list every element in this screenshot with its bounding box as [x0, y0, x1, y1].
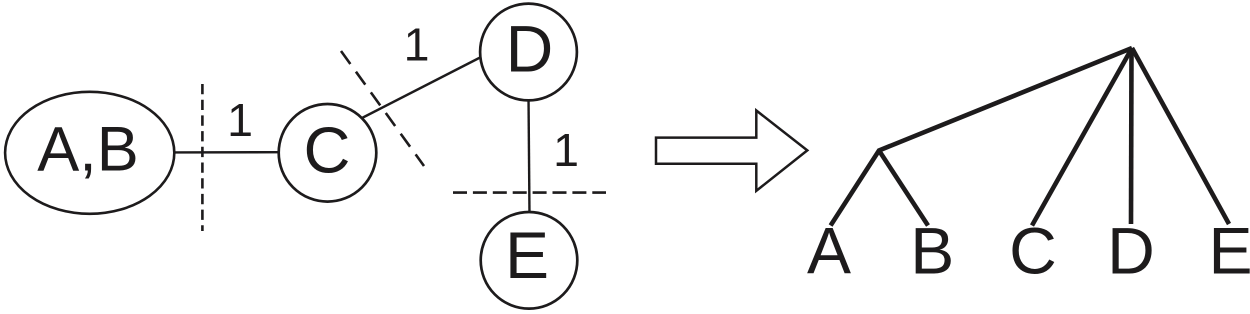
svg-text:1: 1 [227, 94, 253, 146]
tree edge root–D [1129, 48, 1134, 224]
cut line 2 (diagonal dashed) [341, 51, 424, 166]
tree edge root–E [1132, 48, 1229, 224]
wire D to E [529, 96, 530, 215]
arrow (transform symbol) [656, 111, 807, 191]
svg-text:A: A [807, 213, 851, 287]
node C (circle) [279, 104, 377, 202]
svg-text:A,B: A,B [37, 115, 139, 185]
svg-text:B: B [910, 213, 954, 287]
svg-text:E: E [505, 218, 549, 292]
node D (circle) [480, 4, 577, 101]
svg-text:1: 1 [553, 124, 579, 176]
tree edge root–C [1032, 48, 1132, 226]
cut line 1 (vertical dashed) [201, 84, 204, 231]
svg-text:E: E [1208, 213, 1250, 287]
tree edge internal–B [879, 151, 928, 226]
svg-text:1: 1 [404, 18, 430, 70]
svg-text:D: D [506, 12, 554, 86]
wire C to D [360, 56, 484, 120]
tree edge root–internal–A [831, 48, 1132, 226]
svg-text:D: D [1107, 213, 1155, 287]
node A,B (ellipse) [5, 92, 174, 214]
wire A,B to C [172, 151, 284, 154]
svg-text:C: C [1009, 213, 1057, 287]
cut line 3 (horizontal dashed) [453, 191, 606, 194]
node E (circle) [481, 212, 578, 309]
svg-text:C: C [304, 114, 351, 187]
